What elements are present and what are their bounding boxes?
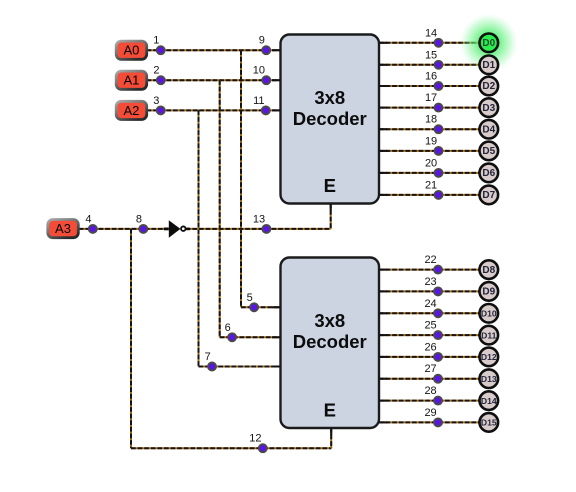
svg-text:D9: D9 [482, 287, 495, 298]
input pin A0 [116, 41, 147, 59]
node 20 [425, 157, 443, 177]
LED D10 [480, 304, 499, 323]
wire decoder1 output 2 [379, 85, 480, 87]
svg-text:2: 2 [153, 65, 159, 77]
node 18 [425, 114, 443, 134]
node 17 [425, 92, 443, 112]
wire decoder2 output 1 [379, 290, 480, 292]
wire decoder2 input C [199, 366, 281, 368]
wire decoder2 output 0 [379, 269, 480, 271]
wire A1 row [147, 79, 281, 81]
node 19 [425, 135, 443, 155]
wire decoder2 output 4 [379, 356, 480, 358]
wire E2 pin vertical [330, 428, 332, 448]
LED D0 [460, 14, 518, 72]
wire decoder2 output 6 [379, 400, 480, 402]
node 5 [247, 292, 258, 312]
wire decoder1 output 5 [379, 150, 480, 152]
inverter (NOT gate) on A3 [164, 220, 190, 238]
LED D6 [480, 164, 499, 183]
node 2 [153, 65, 164, 85]
wire decoder2 output 7 [379, 421, 480, 423]
svg-text:D10: D10 [481, 309, 497, 319]
svg-text:D5: D5 [482, 146, 495, 157]
wire E1 pin vertical [330, 204, 332, 229]
svg-text:D0: D0 [482, 38, 495, 49]
svg-text:12: 12 [249, 433, 261, 445]
LED D1 [480, 56, 499, 75]
svg-text:10: 10 [253, 65, 265, 77]
wire A3 to inverter [79, 228, 169, 230]
wire A0 branch vertical [240, 50, 242, 307]
node 10 [253, 65, 271, 85]
svg-text:18: 18 [425, 114, 437, 126]
svg-text:A2: A2 [123, 103, 139, 118]
svg-text:D12: D12 [481, 352, 497, 362]
node 3 [153, 95, 164, 115]
LED D7 [480, 186, 499, 205]
LED D9 [480, 282, 499, 301]
wire bottom row [131, 447, 331, 449]
node 8 [136, 213, 147, 233]
svg-text:3x8: 3x8 [314, 87, 345, 108]
svg-text:23: 23 [424, 276, 436, 288]
3x8 decoder U2 [281, 258, 380, 429]
LED D2 [480, 77, 499, 96]
node 13 [253, 213, 271, 233]
svg-text:9: 9 [259, 35, 265, 47]
input pin A1 [116, 71, 147, 89]
svg-text:D1: D1 [482, 60, 495, 71]
LED D13 [480, 369, 499, 388]
wire decoder2 input A [241, 306, 281, 308]
node 9 [259, 35, 270, 55]
svg-text:D2: D2 [482, 81, 495, 92]
svg-text:3x8: 3x8 [314, 310, 345, 331]
svg-text:7: 7 [205, 351, 211, 363]
svg-text:A0: A0 [123, 43, 139, 58]
wire decoder2 output 3 [379, 334, 480, 336]
node 4 [85, 213, 96, 233]
LED D8 [480, 260, 499, 279]
node 24 [424, 298, 442, 318]
svg-text:13: 13 [253, 213, 265, 225]
wire decoder2 input B [220, 336, 281, 338]
svg-text:Decoder: Decoder [293, 108, 367, 129]
3x8 decoder U1 [281, 35, 380, 204]
LED D14 [480, 391, 499, 410]
wire A2 row [147, 109, 281, 111]
svg-text:25: 25 [424, 320, 436, 332]
LED D12 [480, 348, 499, 367]
node 28 [424, 385, 442, 405]
LED D15 [480, 413, 499, 432]
wire decoder1 output 4 [379, 128, 480, 130]
input pin A2 [116, 101, 147, 119]
svg-text:5: 5 [247, 292, 253, 304]
node 26 [424, 341, 442, 361]
LED D11 [480, 326, 499, 345]
svg-text:14: 14 [425, 27, 437, 39]
node 6 [225, 322, 236, 342]
svg-text:17: 17 [425, 92, 437, 104]
svg-text:D11: D11 [481, 330, 497, 340]
wire A1 branch vertical [219, 80, 221, 337]
svg-text:1: 1 [153, 35, 159, 47]
svg-text:8: 8 [136, 213, 142, 225]
node 12 [249, 433, 267, 453]
LED D5 [480, 142, 499, 161]
node 22 [424, 254, 442, 274]
node 1 [153, 35, 164, 55]
svg-text:15: 15 [425, 49, 437, 61]
node 25 [424, 320, 442, 340]
svg-text:D13: D13 [481, 374, 497, 384]
node 7 [205, 351, 216, 371]
wire A0 row [147, 49, 281, 51]
wire A2 branch vertical [198, 110, 200, 366]
svg-text:6: 6 [225, 322, 231, 334]
svg-text:D3: D3 [482, 103, 495, 114]
wire inverter output to E1 [186, 228, 331, 230]
svg-text:E: E [324, 175, 336, 196]
wire decoder1 output 6 [379, 172, 480, 174]
svg-text:D15: D15 [481, 418, 497, 428]
input pin A3 [48, 220, 79, 238]
svg-text:29: 29 [424, 407, 436, 419]
svg-text:16: 16 [425, 71, 437, 83]
svg-text:E: E [324, 400, 336, 421]
LED D3 [480, 98, 499, 117]
svg-text:22: 22 [424, 254, 436, 266]
node 21 [425, 179, 443, 199]
LED D4 [480, 120, 499, 139]
svg-text:A1: A1 [123, 73, 139, 88]
node 16 [425, 71, 443, 91]
svg-text:27: 27 [424, 363, 436, 375]
svg-text:24: 24 [424, 298, 436, 310]
node 15 [425, 49, 443, 69]
svg-text:D14: D14 [481, 396, 497, 406]
svg-text:Decoder: Decoder [293, 331, 367, 352]
wire decoder1 output 1 [379, 64, 480, 66]
wire decoder1 output 7 [379, 194, 480, 196]
svg-text:D6: D6 [482, 168, 495, 179]
svg-text:20: 20 [425, 157, 437, 169]
node 11 [253, 95, 270, 115]
svg-text:4: 4 [85, 213, 91, 225]
node 29 [424, 407, 442, 427]
node 23 [424, 276, 442, 296]
svg-text:D7: D7 [482, 190, 495, 201]
decoder pin stubs [272, 43, 388, 435]
wire A3 branch vertical [130, 229, 132, 448]
node 27 [424, 363, 442, 383]
wire decoder2 output 2 [379, 312, 480, 314]
svg-text:28: 28 [424, 385, 436, 397]
svg-text:D4: D4 [482, 124, 495, 135]
svg-text:11: 11 [253, 95, 264, 107]
svg-text:19: 19 [425, 135, 437, 147]
wire decoder2 output 5 [379, 378, 480, 380]
svg-text:3: 3 [153, 95, 159, 107]
node 14 [425, 27, 443, 47]
wire decoder1 output 3 [379, 107, 480, 109]
svg-text:21: 21 [425, 179, 437, 191]
wire decoder1 output 0 [379, 42, 480, 44]
svg-text:D8: D8 [482, 265, 495, 276]
svg-text:A3: A3 [55, 221, 71, 236]
svg-text:26: 26 [424, 341, 436, 353]
